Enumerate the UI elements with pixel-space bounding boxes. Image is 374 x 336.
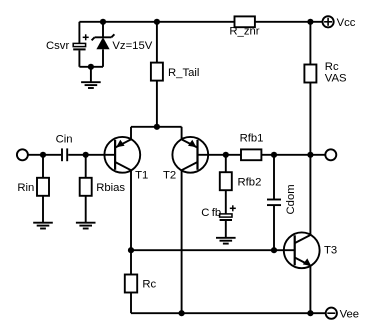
resistor Rin [37,178,49,196]
ground (Cfb) [216,238,236,244]
resistor Rc VAS [304,65,316,83]
wire Cdom lower [273,205,275,250]
wire bottom rail [131,312,326,314]
junction VAS output [307,152,313,158]
ground (Rbias) [76,223,96,229]
svg-text:VAS: VAS [325,73,347,85]
resistor Rc (T1 load) [125,275,137,293]
svg-text:Rbias: Rbias [96,182,125,194]
wire T1 emitter [130,127,132,140]
junction Cdom top [271,152,277,158]
svg-text:T1: T1 [135,170,148,182]
wire top rail [79,21,322,23]
capacitor Cfb [220,205,236,221]
wire Csvr top branch [78,22,80,44]
wire R_Tail upper [156,22,158,63]
svg-text:T3: T3 [324,244,337,256]
wire zener top branch [102,22,104,38]
capacitor Cdom [267,200,281,206]
wire Rfb2 to Cfb [225,190,227,214]
wire Rc lower [130,293,132,314]
svg-text:Cin: Cin [56,134,73,146]
terminal input [17,149,28,160]
svg-text:Rin: Rin [17,182,34,194]
svg-text:Rfb2: Rfb2 [238,176,262,188]
wire Cdom upper [273,155,275,200]
transistor T2 (PNP mirrored) [172,137,208,173]
svg-text:Rfb1: Rfb1 [240,133,264,145]
junction T2 collector bottom [179,310,185,316]
wire zener bottom [102,49,104,67]
ground (Rin) [33,223,53,229]
resistor Rbias [80,178,92,196]
svg-text:Rc: Rc [142,278,156,290]
wire T2 emitter [181,127,183,140]
junction T1 collector / VAS input [128,247,134,253]
transistor T1 (PNP) [104,137,140,173]
wire Rfb2 upper [225,155,227,172]
junction Rbias [83,152,89,158]
junction R_Tail top [154,19,160,25]
junction T3 emitter bottom [307,310,313,316]
resistor R_znr [235,16,255,27]
capacitor Csvr [73,34,89,50]
junction tail [154,124,160,130]
junction feedback node [223,152,229,158]
svg-text:Rc: Rc [325,61,339,73]
svg-text:Vz=15V: Vz=15V [112,40,152,52]
wire T2 base to Rfb1 [198,154,242,156]
wire Rin lower [42,196,44,223]
junction Cdom bottom [271,247,277,253]
junction Rin [40,152,46,158]
wire csvr-zener bottom link [79,66,103,68]
svg-text:Csvr: Csvr [46,40,69,52]
wire Rc VAS upper [309,22,311,65]
wire input to Cin [28,154,61,156]
svg-text:R_znr: R_znr [229,26,259,38]
capacitor Cin [62,148,67,161]
ground (supply filter) [81,67,101,88]
wire Rin upper [42,155,44,178]
terminal Vcc [323,16,334,27]
svg-text:C fb: C fb [201,207,221,219]
resistor Rfb1 [241,149,261,160]
junction zener top [100,19,106,25]
wire Csvr bottom [78,50,80,66]
resistor R_Tail [151,63,163,81]
wire T1 collector [130,170,132,274]
wire Cfb to ground [225,221,227,238]
wire T3 emitter [309,266,311,314]
junction Vcc node [307,19,313,25]
junction supply ground [88,64,94,70]
transistor T3 (NPN) [284,232,320,268]
svg-text:R_Tail: R_Tail [168,67,199,79]
wire VAS input row [131,249,295,251]
wire R_Tail lower [156,81,158,127]
svg-text:Vee: Vee [340,308,359,320]
wire Rfb1 to output [261,154,325,156]
wire Rc VAS lower to T3 collector [309,83,311,236]
wire T2 collector [181,170,183,313]
svg-text:T2: T2 [163,170,176,182]
resistor Rfb2 [220,172,232,190]
wire Rbias lower [85,196,87,223]
terminal output [325,149,336,160]
terminal Vee [326,308,337,319]
zener diode Vz [92,34,115,49]
svg-text:Vcc: Vcc [337,17,356,29]
wire Rbias upper [85,155,87,178]
svg-text:Cdom: Cdom [285,184,297,214]
wire Cin to T1 base [68,154,115,156]
wire emitter rail [131,126,182,128]
